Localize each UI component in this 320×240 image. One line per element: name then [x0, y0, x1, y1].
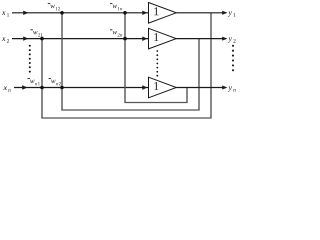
- node x1 input label: [2, 11, 9, 16]
- junction dot wn1 row n: [40, 86, 44, 90]
- feedback drop from y2 output (x=199): [198, 39, 200, 110]
- junction dot w1n row1: [123, 11, 127, 15]
- label w2n: [110, 30, 122, 37]
- feedback bottom rail yn: [124, 102, 187, 104]
- arrow input x1: [23, 11, 28, 15]
- wire row 2 input line: [12, 38, 149, 40]
- feedback drop from y1 output (x=211): [210, 13, 212, 118]
- junction dot w2n row2: [123, 37, 127, 41]
- arrow output y1: [222, 11, 227, 15]
- junction dot w12 row1: [60, 11, 64, 15]
- ellipsis dots middle column: [156, 50, 158, 77]
- label w12: [48, 4, 60, 11]
- arrow output yn: [222, 86, 227, 90]
- wire row 1 output line: [176, 12, 226, 14]
- node xn input label: [3, 86, 10, 91]
- node yn output label: [228, 86, 236, 91]
- node x2 input label: [2, 37, 9, 42]
- op-amp Un row n: [149, 77, 177, 98]
- arrow input x2: [23, 36, 28, 40]
- feedback drop from yn output (x=187): [186, 88, 188, 103]
- feedback vertical from yn (x=125): [124, 13, 126, 103]
- arrow into amp row 1: [142, 11, 147, 15]
- junction dot wn2 row n: [60, 86, 64, 90]
- op-amp U1 row 1: [149, 3, 177, 24]
- node y2 output label: [228, 37, 236, 42]
- arrow input xn: [22, 85, 27, 89]
- feedback bottom rail y1: [41, 117, 211, 119]
- wire row 1 input line: [12, 12, 149, 14]
- arrow into amp row n: [142, 85, 147, 90]
- label wn2: [49, 79, 61, 86]
- feedback bottom rail y2: [61, 109, 199, 111]
- op-amp U2 row 2: [149, 28, 177, 49]
- ellipsis dots right column: [232, 45, 234, 72]
- node y1 output label: [228, 11, 236, 16]
- wire row n input line: [14, 87, 149, 89]
- label w1n: [110, 4, 122, 11]
- wire row n output line: [176, 87, 226, 89]
- feedback vertical from y1 (x=42): [41, 39, 43, 118]
- feedback vertical from y2 (x=62): [61, 13, 63, 110]
- label wn1: [28, 79, 40, 86]
- arrow into amp row 2: [142, 36, 147, 41]
- label w21: [31, 30, 43, 37]
- junction dot w21 row2: [40, 37, 44, 41]
- arrow output y2: [222, 37, 227, 41]
- wire row 2 output line: [176, 38, 226, 40]
- ellipsis dots left column: [29, 45, 31, 73]
